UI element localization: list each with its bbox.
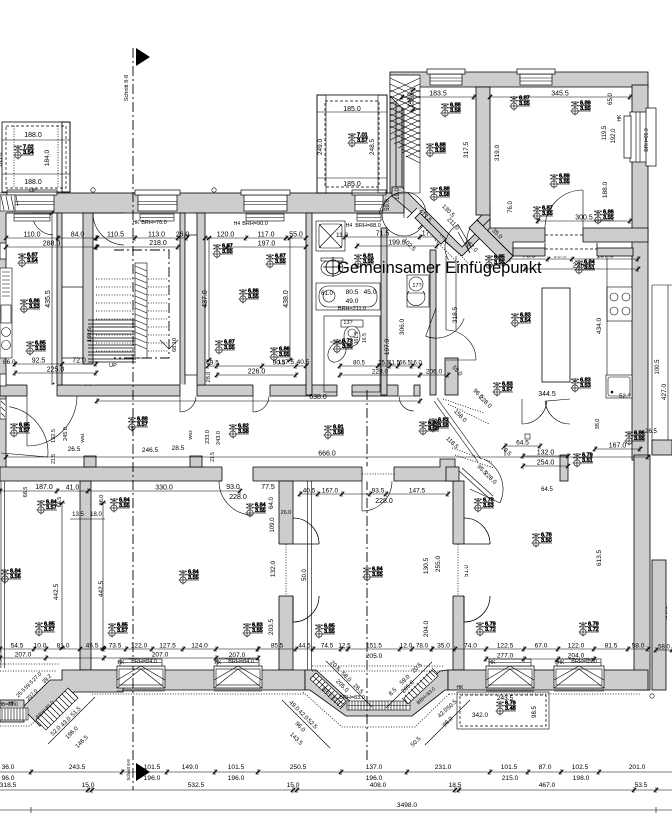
- svg-text:28.0: 28.0: [206, 372, 212, 383]
- svg-text:HK: HK: [489, 660, 497, 666]
- svg-text:434.0: 434.0: [596, 317, 603, 334]
- svg-text:UP: UP: [29, 188, 37, 194]
- window marker: [1, 569, 22, 584]
- door gap B/C: [453, 544, 465, 596]
- svg-text:59.0: 59.0: [385, 199, 391, 211]
- svg-text:12.0: 12.0: [400, 643, 413, 650]
- svg-text:120.0: 120.0: [217, 232, 235, 239]
- left wall window 2: [0, 374, 6, 386]
- svg-text:246.5: 246.5: [142, 447, 159, 454]
- svg-text:28.5: 28.5: [172, 445, 185, 452]
- svg-text:21.5: 21.5: [210, 452, 216, 462]
- svg-text:3.55: 3.55: [559, 179, 570, 185]
- x: [410, 88, 416, 112]
- door gap left room: [27, 385, 57, 397]
- dim roomC 167: [593, 443, 642, 453]
- svg-text:HK: HK: [118, 660, 126, 666]
- svg-text:W03: W03: [188, 430, 193, 440]
- svg-text:442.5: 442.5: [98, 580, 105, 597]
- svg-text:26.0: 26.0: [176, 232, 190, 239]
- dim corridor low left: [0, 485, 242, 495]
- shower/washing box bath1: [316, 221, 345, 251]
- svg-text:77.5: 77.5: [261, 484, 275, 491]
- svg-text:206.0: 206.0: [426, 369, 443, 376]
- window marker: [430, 187, 451, 202]
- door arc wing big room: [545, 190, 583, 228]
- central bay: [305, 670, 448, 716]
- svg-text:13?: 13?: [343, 320, 352, 326]
- window marker: [10, 423, 31, 438]
- wall: kitchen left upper thin: [446, 256, 456, 330]
- dim bath low: [338, 361, 423, 370]
- svg-text:41.0: 41.0: [66, 485, 80, 492]
- svg-text:17?: 17?: [412, 283, 421, 289]
- window marker: [476, 622, 497, 637]
- svg-text:196.0: 196.0: [366, 775, 383, 782]
- svg-text:3.55: 3.55: [188, 575, 199, 581]
- door arc into kitchen: [446, 330, 476, 360]
- window marker: [419, 421, 440, 436]
- svg-text:74.0: 74.0: [464, 643, 477, 650]
- radiator HK: [14, 214, 50, 221]
- diag hall wall b: [469, 220, 513, 264]
- svg-text:132.5: 132.5: [51, 429, 57, 443]
- window right wing wall BRH=95.0: [630, 108, 656, 166]
- svg-text:344.5: 344.5: [538, 391, 556, 398]
- svg-text:3.57: 3.57: [357, 138, 368, 144]
- wall: room B/C divider: [453, 481, 464, 670]
- vestibule dotted steps: [443, 399, 494, 468]
- dim bedroom v left: [202, 236, 212, 362]
- svg-text:203.5: 203.5: [268, 618, 275, 635]
- svg-text:3.55: 3.55: [372, 572, 383, 578]
- svg-text:96.0: 96.0: [2, 775, 15, 782]
- window marker: [128, 417, 149, 432]
- wc2 room fixtures: [324, 316, 380, 392]
- door arc wing bottom-left: [379, 193, 404, 218]
- svg-text:3498.0: 3498.0: [397, 802, 418, 809]
- radiator HK: [489, 659, 531, 666]
- wall: bath right: [381, 228, 387, 395]
- stair lower flight solid treads: [88, 320, 136, 362]
- vestibule glass door diag: [459, 468, 493, 499]
- door arc balcony entry: [32, 213, 54, 235]
- kitchen door left leaf: [522, 399, 547, 424]
- svg-text:124.0: 124.0: [191, 643, 208, 650]
- svg-text:100.5: 100.5: [655, 359, 661, 375]
- radiator HK: [217, 659, 259, 666]
- window bottom room C 1: [486, 666, 534, 691]
- left bay inner dots: [0, 664, 60, 671]
- door gap A/B: [279, 544, 294, 596]
- exterior wall: top band of main building: [0, 193, 404, 213]
- svg-text:44.5: 44.5: [298, 643, 311, 650]
- window marker: [179, 570, 200, 585]
- stair walk line: [114, 250, 169, 358]
- window marker: [239, 289, 260, 304]
- dim bath total: [355, 240, 439, 250]
- window marker: [511, 313, 532, 328]
- svg-text:Schnitt 8-8: Schnitt 8-8: [126, 759, 131, 781]
- dim left room low total: [13, 367, 98, 377]
- wall: mid horizontal corridor top: [0, 385, 420, 396]
- svg-text:127.5: 127.5: [159, 643, 176, 650]
- wall: wing room divider: [476, 87, 490, 215]
- svg-text:245.0: 245.0: [63, 427, 69, 441]
- svg-text:250.5: 250.5: [290, 764, 307, 771]
- svg-text:207.0: 207.0: [152, 652, 169, 659]
- node sq: [525, 434, 530, 439]
- closet nook bedroom: [185, 235, 197, 375]
- svg-text:3.54: 3.54: [520, 318, 531, 324]
- svg-text:3.53: 3.53: [483, 503, 494, 509]
- svg-text:3.57: 3.57: [19, 428, 30, 434]
- window marker: [18, 253, 39, 268]
- bay interior dotted: [312, 666, 443, 671]
- dim stair top: [94, 232, 190, 242]
- svg-text:84.0: 84.0: [71, 232, 85, 239]
- door arc left room to corridor: [27, 396, 77, 446]
- dim left room top: [4, 232, 99, 242]
- svg-text:225.0: 225.0: [47, 367, 65, 374]
- svg-text:16.0: 16.0: [410, 361, 422, 367]
- window top w/ BRH=76.0: [135, 190, 180, 211]
- svg-text:H4: H4: [234, 221, 241, 227]
- svg-text:613.5: 613.5: [596, 549, 603, 566]
- window marker: [246, 503, 267, 518]
- window top-left: [7, 190, 57, 211]
- svg-text:3.55: 3.55: [363, 259, 374, 265]
- bay window bottom: [347, 701, 410, 710]
- marker balcony1: [14, 145, 35, 160]
- svg-text:248.5: 248.5: [369, 138, 376, 155]
- svg-text:147.5: 147.5: [409, 488, 426, 495]
- window marker: [229, 424, 250, 439]
- window marker: [532, 533, 553, 548]
- closet between left room and stair: [62, 287, 83, 358]
- svg-text:87.0: 87.0: [539, 764, 552, 771]
- svg-text:16.5: 16.5: [362, 333, 368, 343]
- door dotted A/B: [286, 544, 288, 596]
- svg-text:117.0: 117.0: [258, 232, 275, 239]
- dim bottom row1 right: [430, 643, 650, 653]
- dim v room A1 right: [100, 501, 106, 650]
- corridor cross stub 1: [84, 456, 96, 467]
- svg-text:51.0: 51.0: [464, 565, 470, 577]
- door gap bath: [337, 385, 352, 397]
- window marker: [215, 340, 236, 355]
- svg-text:3.53: 3.53: [35, 346, 46, 352]
- door arc room A: [219, 481, 253, 515]
- svg-text:188.0: 188.0: [602, 181, 609, 198]
- dim bottom row2 left: [0, 652, 260, 662]
- svg-text:3.55: 3.55: [342, 344, 353, 350]
- svg-text:73.5: 73.5: [109, 643, 122, 650]
- svg-text:58.0: 58.0: [658, 645, 670, 651]
- svg-text:427.0: 427.0: [661, 383, 668, 400]
- window marker: [550, 174, 571, 189]
- dim v room A1 left: [59, 501, 65, 650]
- door gap in wing diagonal: [407, 208, 428, 229]
- stairwell treads: [96, 279, 168, 351]
- svg-text:197.0: 197.0: [258, 241, 276, 248]
- svg-text:26.5: 26.5: [68, 446, 81, 453]
- svg-text:342.0: 342.0: [472, 712, 489, 719]
- svg-text:67.0: 67.0: [535, 643, 548, 650]
- wall: bedroom right / bath left: [306, 213, 312, 395]
- svg-text:38.0: 38.0: [595, 419, 601, 430]
- svg-text:26.5: 26.5: [645, 429, 657, 435]
- svg-text:3.72: 3.72: [485, 627, 496, 633]
- diagonal wall below wing small room: [392, 187, 490, 256]
- svg-text:408.0: 408.0: [370, 782, 387, 789]
- window marker: [571, 101, 592, 116]
- svg-text:13.5: 13.5: [72, 512, 84, 518]
- dim 58: [654, 645, 672, 654]
- svg-text:196.0: 196.0: [228, 775, 245, 782]
- window top BRH=90.0: [241, 190, 290, 211]
- svg-text:HK: HK: [617, 114, 623, 122]
- svg-text:3.55: 3.55: [255, 508, 266, 514]
- svg-text:345.5: 345.5: [551, 91, 569, 98]
- window marker: [485, 255, 506, 270]
- svg-text:109.0: 109.0: [270, 517, 276, 533]
- node circle: [650, 694, 654, 698]
- svg-text:66.5: 66.5: [23, 487, 29, 498]
- svg-text:52.?: 52.?: [619, 394, 631, 400]
- kitchen door right leaf: [545, 399, 570, 424]
- svg-text:198.0: 198.0: [573, 775, 590, 782]
- wc shaft right: [407, 275, 429, 307]
- window wing top 2: [517, 69, 555, 85]
- svg-text:532.5: 532.5: [188, 782, 205, 789]
- window marker: [270, 347, 291, 362]
- window marker: [573, 453, 594, 468]
- right annex wall lines: [652, 285, 672, 455]
- svg-text:3.55: 3.55: [580, 106, 591, 112]
- window marker: [243, 623, 264, 638]
- dim bottom row1 left: [0, 643, 260, 653]
- svg-text:3.55: 3.55: [324, 629, 335, 635]
- dim line left bay diag: [48, 697, 95, 744]
- wall: left room right side: [57, 213, 62, 385]
- svg-text:249.0: 249.0: [317, 138, 324, 155]
- svg-text:110.0: 110.0: [24, 232, 41, 239]
- svg-text:3.58: 3.58: [238, 429, 249, 435]
- section arrow bottom: [136, 763, 150, 781]
- svg-text:18.0: 18.0: [90, 512, 102, 518]
- wall: big room bottom / kitchen top: [477, 207, 648, 256]
- door stair to corridor: [180, 396, 196, 412]
- dim line cbay right: [425, 700, 470, 745]
- svg-text:3.50: 3.50: [541, 538, 552, 544]
- door gap stair hall: [180, 385, 197, 397]
- svg-text:233.0: 233.0: [205, 430, 211, 444]
- sill dots bottom left wall: [92, 693, 304, 695]
- svg-text:93.5: 93.5: [372, 488, 385, 495]
- svg-text:3.54: 3.54: [23, 150, 34, 156]
- svg-text:122.0: 122.0: [131, 643, 148, 650]
- door gap room B: [362, 467, 394, 482]
- svg-text:3.55: 3.55: [603, 215, 614, 221]
- svg-text:3.57: 3.57: [117, 628, 128, 634]
- kitchen stove: [607, 287, 632, 321]
- dim chain bottom line D: [0, 809, 672, 811]
- window under balcony: [352, 190, 386, 211]
- svg-text:148.0: 148.0: [408, 92, 414, 108]
- svg-text:65.0: 65.0: [608, 93, 614, 105]
- window marker: [571, 378, 592, 393]
- window marker: [20, 299, 41, 314]
- svg-text:H4: H4: [346, 223, 353, 229]
- window marker: [213, 244, 234, 259]
- svg-text:149.0: 149.0: [182, 764, 199, 771]
- dim 64.5: [503, 440, 542, 450]
- section line vertical 2: [366, 390, 368, 760]
- bottom wall left of x0: [0, 700, 24, 722]
- svg-text:288.0: 288.0: [43, 241, 61, 248]
- dim wing room2: [488, 91, 632, 101]
- svg-text:W04: W04: [80, 433, 85, 443]
- svg-text:93.0: 93.0: [226, 484, 240, 491]
- window bottom BRH=84.0 room A: [214, 666, 262, 691]
- wall: room C right of top: [560, 455, 568, 481]
- dim chain bottom line A: [0, 771, 672, 773]
- dim bedroom low total: [215, 369, 298, 379]
- svg-text:132.0: 132.0: [537, 450, 555, 457]
- dim corridor low right: [298, 488, 450, 498]
- kitchen counter line: [606, 256, 608, 398]
- svg-text:231.0: 231.0: [435, 764, 452, 771]
- svg-text:92.5: 92.5: [32, 358, 46, 365]
- dim bedroom low a: [206, 360, 308, 370]
- svg-text:BRH=85.0: BRH=85.0: [571, 659, 597, 665]
- svg-text:207.0: 207.0: [15, 652, 32, 659]
- svg-text:78.0: 78.0: [416, 643, 429, 650]
- svg-text:BRH=84.0: BRH=84.0: [131, 659, 157, 665]
- svg-text:64.5: 64.5: [516, 440, 529, 447]
- circle node top wall 1: [91, 188, 95, 192]
- bay window right diagonal: [402, 668, 438, 704]
- door arc A/B upper redraw: [293, 518, 319, 544]
- kitchen counter left room: [0, 268, 12, 358]
- wall: corridor bottom long: [0, 459, 455, 481]
- exterior wall: right wing right side: [632, 85, 648, 460]
- window marker: [266, 254, 287, 269]
- svg-text:442.5: 442.5: [53, 583, 60, 600]
- dim roomC 132: [521, 450, 570, 460]
- dim wing room2 bottom: [536, 215, 632, 225]
- svg-text:3.51: 3.51: [582, 458, 593, 464]
- dim bedroom total: [225, 241, 308, 251]
- svg-text:15.0: 15.0: [287, 782, 300, 789]
- svg-text:3.51: 3.51: [584, 265, 595, 271]
- vestibule gray wedge: [446, 467, 459, 481]
- window marker: [594, 210, 615, 225]
- svg-text:228.0: 228.0: [372, 369, 389, 376]
- dim bedroom top: [203, 232, 308, 242]
- window marker: [441, 103, 462, 118]
- svg-text:306.0: 306.0: [399, 318, 406, 335]
- window marker: [354, 254, 375, 269]
- door gap bedroom: [253, 385, 270, 397]
- balcony top-center: [317, 95, 387, 193]
- svg-text:113.0: 113.0: [148, 232, 165, 239]
- left bay window diagonal: [36, 688, 78, 730]
- svg-text:HK: HK: [215, 660, 223, 666]
- svg-text:184.0: 184.0: [44, 149, 51, 166]
- svg-text:HK: HK: [457, 685, 465, 691]
- svg-text:167.0: 167.0: [609, 443, 627, 450]
- svg-text:86.0: 86.0: [3, 359, 16, 366]
- svg-text:BRH=88.0: BRH=88.0: [355, 223, 381, 229]
- svg-text:215.0: 215.0: [502, 775, 519, 782]
- svg-text:317.5: 317.5: [463, 141, 470, 158]
- window marker: [510, 96, 531, 111]
- svg-text:3.58: 3.58: [450, 108, 461, 114]
- svg-text:3.56: 3.56: [10, 574, 21, 580]
- svg-text:3.55: 3.55: [248, 294, 259, 300]
- svg-text:81.0: 81.0: [57, 643, 70, 650]
- window marker: [579, 622, 600, 637]
- window marker: [315, 624, 336, 639]
- svg-text:185.0: 185.0: [343, 181, 361, 188]
- svg-text:188.0: 188.0: [24, 132, 42, 139]
- svg-text:3.58: 3.58: [439, 192, 450, 198]
- dim stair total: [94, 244, 180, 250]
- door arc B/C lower redraw: [464, 596, 490, 622]
- svg-text:BRH=95.0: BRH=95.0: [644, 128, 650, 151]
- svg-text:101.5: 101.5: [501, 764, 518, 771]
- circle node top wall 2: [212, 188, 216, 192]
- door gap room A: [222, 467, 253, 482]
- svg-text:132.0: 132.0: [270, 560, 277, 577]
- vestibule diag thin wall SW: [434, 398, 481, 462]
- bathtub: [316, 283, 380, 310]
- svg-text:183.5: 183.5: [429, 91, 447, 98]
- window marker: [474, 498, 495, 513]
- svg-text:26.0: 26.0: [281, 510, 292, 516]
- window bottom BRH=85.0 room C 2: [554, 666, 604, 691]
- dim line bay inner right: [386, 662, 432, 708]
- radiator HK: [557, 659, 601, 666]
- right annex stub: [652, 440, 672, 455]
- svg-text:197.0: 197.0: [384, 338, 391, 355]
- door gap wc: [398, 385, 414, 397]
- svg-text:300.5: 300.5: [575, 215, 593, 222]
- svg-text:3.55: 3.55: [224, 345, 235, 351]
- svg-text:15.0: 15.0: [82, 782, 95, 789]
- radiator HK: [120, 659, 162, 666]
- dim bottom row2 right: [484, 653, 596, 663]
- kitchen sink: [606, 375, 632, 398]
- svg-text:49.0: 49.0: [346, 298, 359, 305]
- dim 638 line: [95, 398, 422, 404]
- wall: kitchen left lower gray: [445, 358, 458, 395]
- kitchen island: [542, 288, 570, 382]
- svg-text:72.0: 72.0: [72, 358, 86, 365]
- dim left room v: [45, 211, 55, 387]
- svg-text:3.55: 3.55: [119, 503, 130, 509]
- bay outer sill: [303, 692, 450, 727]
- window marker: [625, 431, 646, 446]
- door wc: [426, 308, 465, 338]
- balcony top-left: [2, 122, 70, 192]
- dim kitchen total: [523, 263, 640, 273]
- wall: below corridor T at left: [80, 481, 91, 670]
- dim roomC 254: [521, 460, 570, 470]
- door dotted B/C: [457, 544, 459, 596]
